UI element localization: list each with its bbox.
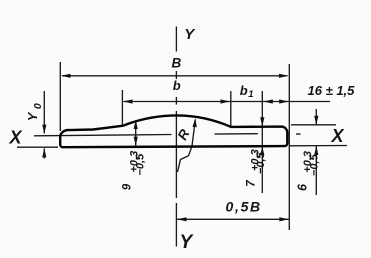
svg-text:1: 1	[248, 89, 253, 100]
svg-text:9: 9	[122, 183, 134, 190]
svg-text:R: R	[175, 127, 193, 143]
svg-text:−0,5: −0,5	[255, 151, 267, 174]
svg-text:X: X	[9, 128, 23, 148]
svg-text:B: B	[172, 55, 182, 70]
svg-text:X: X	[331, 126, 345, 146]
svg-text:Y: Y	[180, 232, 195, 253]
svg-text:6: 6	[296, 183, 310, 191]
svg-text:−0,5: −0,5	[135, 153, 147, 176]
svg-text:0: 0	[32, 103, 44, 109]
svg-text:0,5B: 0,5B	[226, 199, 262, 215]
svg-text:b: b	[240, 83, 248, 98]
svg-text:b: b	[173, 78, 181, 93]
svg-text:Y: Y	[25, 111, 40, 121]
svg-text:Y: Y	[184, 26, 196, 43]
svg-text:−0,5: −0,5	[309, 153, 321, 176]
svg-text:16 ± 1,5: 16 ± 1,5	[308, 83, 356, 98]
svg-text:7: 7	[245, 180, 257, 187]
